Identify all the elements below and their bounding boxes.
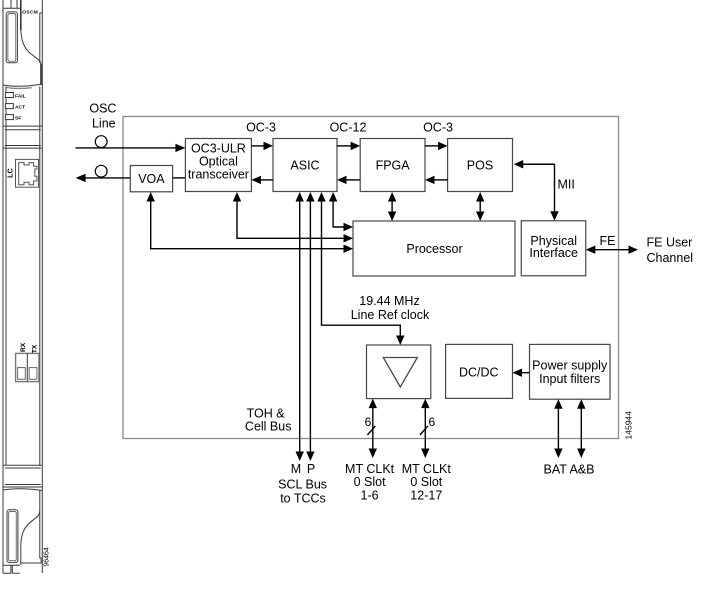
ejector lever S-curve (top) [21, 28, 41, 64]
svg-text:ACT: ACT [15, 105, 25, 111]
svg-text:FAIL: FAIL [15, 93, 26, 99]
label TOH & Cell Bus [245, 407, 292, 434]
svg-text:Interface: Interface [529, 246, 578, 260]
svg-text:Line Ref clock: Line Ref clock [351, 308, 430, 322]
wire ASIC to FPGA (OC-12 right arrow) [337, 142, 360, 150]
faceplate right inner edge [39, 13, 41, 63]
wire MT CLK slot 1-6 (double arrow with bus slash) [367, 399, 377, 458]
svg-text:Cell Bus: Cell Bus [245, 420, 292, 434]
svg-text:RX: RX [20, 342, 27, 352]
block U2 ASIC [273, 139, 337, 192]
wire BAT B (double arrow) [577, 399, 585, 458]
svg-text:MT CLKt: MT CLKt [345, 462, 395, 476]
RX inner square [18, 368, 26, 380]
svg-text:6: 6 [429, 415, 436, 429]
svg-text:Power supply: Power supply [532, 358, 608, 372]
ejector lever S-curve (bottom) [21, 511, 40, 565]
faceplate latch bottom wavy lines [3, 84, 42, 86]
wire ASIC SCL bus line M (down out of box) [296, 192, 304, 461]
faceplate bottom feet [3, 565, 20, 573]
svg-text:to TCCs: to TCCs [280, 491, 326, 505]
faceplate bottom right body [21, 490, 41, 563]
label 19.44 MHz Line Ref clock [351, 294, 430, 322]
node FE User Channel label [647, 235, 694, 265]
faceplate OSCM card drawing [3, 0, 42, 573]
faceplate bottom wavy line [3, 489, 42, 491]
svg-text:Line: Line [92, 117, 116, 131]
svg-text:OC3-ULR: OC3-ULR [191, 141, 246, 155]
svg-text:MII: MII [558, 178, 575, 192]
LC connector inner notched jack [19, 163, 37, 185]
svg-text:FPGA: FPGA [376, 158, 411, 172]
wire OSC line in (to transceiver) [76, 144, 186, 152]
block U1 OC3-ULR Optical transceiver [185, 139, 251, 192]
wire VOA to Processor [147, 192, 354, 253]
svg-text:TOH &: TOH & [247, 407, 286, 421]
wire ASIC 19.44MHz ref clock line to clock box [317, 192, 404, 345]
label MT CLKt 0 Slot 12-17 [402, 462, 452, 502]
block U4 POS [448, 139, 513, 192]
fiber connector circle (out) [95, 165, 107, 177]
svg-text:DC/DC: DC/DC [459, 366, 499, 380]
faceplate latch pivot line [20, 0, 22, 30]
svg-text:BAT A&B: BAT A&B [544, 463, 595, 477]
svg-text:SCL Bus: SCL Bus [278, 478, 327, 492]
wire transceiver to Processor [233, 192, 353, 243]
wire MII (POS to Physical Interface) [514, 160, 559, 221]
wire OSC line out (from VOA, leftward arrow) [76, 174, 186, 182]
faceplate top tabs [3, 0, 21, 8]
svg-text:OSCM: OSCM [22, 9, 38, 15]
LED ACT box [5, 104, 13, 109]
faceplate right outer edge [41, 0, 43, 573]
faceplate divider band (lower) [3, 465, 42, 487]
svg-text:96464: 96464 [43, 547, 50, 567]
wire transceiver to ASIC (OC-3 right arrow) [251, 142, 273, 150]
svg-text:VOA: VOA [138, 172, 165, 186]
faceplate top right tick [40, 12, 43, 14]
svg-text:OC-3: OC-3 [423, 121, 453, 135]
LC connector outer [16, 159, 39, 187]
label SCL Bus to TCCs [278, 478, 327, 506]
ejector lever handle (bottom) [7, 510, 18, 563]
svg-text:19.44 MHz: 19.44 MHz [359, 294, 419, 308]
wire MT CLK slot 12-17 (double arrow with bus slash) [420, 399, 430, 458]
fiber connector circle (in) [95, 136, 107, 148]
block VOA [130, 166, 172, 192]
svg-text:0 Slot: 0 Slot [410, 475, 442, 489]
svg-text:Optical: Optical [199, 154, 238, 168]
wire ASIC to Processor (top left arrow) [329, 192, 353, 231]
svg-text:transceiver: transceiver [188, 167, 249, 181]
svg-text:SF: SF [15, 116, 21, 122]
wire ASIC SCL bus line P (down out of box) [306, 192, 314, 461]
svg-text:6: 6 [365, 415, 372, 429]
svg-text:POS: POS [467, 158, 493, 172]
svg-text:145944: 145944 [624, 411, 634, 440]
block clock oscillator (triangle) [367, 345, 431, 399]
faceplate left inner edge [5, 87, 7, 466]
block U3 FPGA [360, 139, 425, 192]
block U5 Processor [353, 221, 515, 276]
outer enclosure box [123, 117, 619, 439]
svg-text:12-17: 12-17 [410, 488, 442, 502]
wire POS to Processor (double arrow) [476, 192, 484, 221]
ejector lever handle (top) [6, 12, 17, 63]
wire FE channel (Physical Interface to FE User Channel, double arrow) [586, 246, 638, 254]
svg-text:TX: TX [32, 344, 39, 353]
svg-text:FE User: FE User [647, 235, 693, 249]
RX TX connector divider [26, 353, 28, 381]
svg-text:LC: LC [6, 168, 15, 178]
wire FPGA to ASIC (left arrow) [337, 176, 360, 184]
svg-text:M: M [291, 462, 301, 476]
svg-text:P: P [307, 462, 315, 476]
svg-text:Processor: Processor [406, 242, 462, 256]
block U6 Physical Interface [521, 221, 586, 276]
block power supply input filters [530, 344, 611, 399]
block DC/DC [446, 344, 513, 398]
svg-text:1-6: 1-6 [361, 488, 379, 502]
svg-text:OC-3: OC-3 [246, 121, 276, 135]
label MT CLKt 0 Slot 1-6 [345, 462, 395, 502]
wire POS to FPGA (left arrow) [425, 176, 448, 184]
svg-text:ASIC: ASIC [290, 158, 319, 172]
wire ASIC to transceiver (left arrow) [251, 176, 273, 184]
wire FPGA to Processor (double arrow) [388, 192, 396, 221]
svg-text:OSC: OSC [89, 101, 116, 115]
svg-text:Input filters: Input filters [539, 372, 600, 386]
TX inner square [29, 368, 37, 380]
node OSC Line label [89, 101, 116, 130]
wire power supply to DC/DC (left arrow) [513, 369, 530, 377]
svg-text:0 Slot: 0 Slot [354, 475, 386, 489]
wire BAT A (double arrow) [554, 399, 562, 458]
LED SF box [5, 115, 13, 120]
svg-text:FE: FE [600, 234, 616, 248]
faceplate divider band (upper) [3, 126, 42, 148]
svg-text:MT CLKt: MT CLKt [402, 462, 452, 476]
svg-text:OC-12: OC-12 [330, 121, 367, 135]
LED FAIL box [5, 93, 13, 98]
svg-text:Channel: Channel [647, 251, 694, 265]
wire FPGA to POS (OC-3 right arrow) [425, 142, 448, 150]
RX TX connector outer [16, 353, 39, 381]
faceplate left outer edge [2, 0, 4, 573]
